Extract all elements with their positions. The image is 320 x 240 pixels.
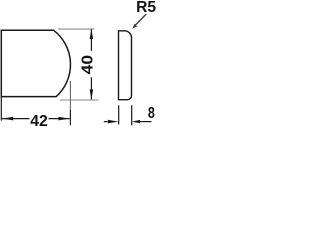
svg-text:40: 40 [80,55,97,75]
svg-text:R5: R5 [136,0,156,16]
svg-text:8: 8 [148,105,155,122]
svg-text:42: 42 [30,113,48,127]
